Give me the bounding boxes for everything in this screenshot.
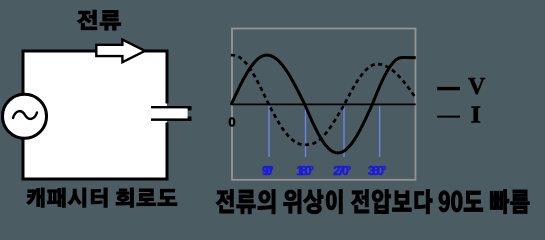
svg-text:V: V (468, 74, 486, 100)
svg-text:180°: 180° (296, 164, 313, 178)
svg-text:90°: 90° (262, 164, 274, 178)
svg-text:I: I (471, 103, 482, 129)
svg-text:270°: 270° (333, 164, 351, 178)
svg-text:360°: 360° (368, 164, 387, 178)
svg-text:0: 0 (228, 115, 235, 130)
